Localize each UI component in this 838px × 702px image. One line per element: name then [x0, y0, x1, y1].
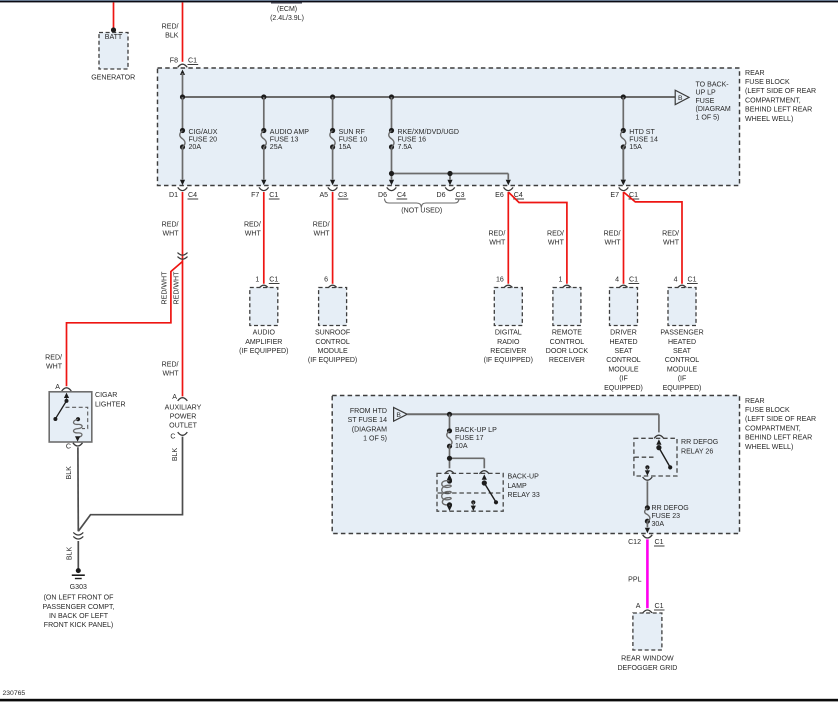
svg-text:(ON LEFT FRONT OF: (ON LEFT FRONT OF	[44, 595, 115, 602]
svg-text:BLK: BLK	[66, 466, 73, 480]
node: junction at D6/C4 drop	[389, 171, 394, 176]
svg-text:25A: 25A	[270, 144, 283, 151]
svg-text:RR DEFOG: RR DEFOG	[681, 439, 718, 446]
svg-text:LAMP: LAMP	[508, 483, 527, 490]
svg-text:COMPARTMENT,: COMPARTMENT,	[745, 425, 801, 432]
svg-text:(DIAGRAM: (DIAGRAM	[696, 106, 731, 113]
svg-text:C1: C1	[655, 603, 664, 610]
svg-text:E6: E6	[495, 192, 504, 199]
label: G303 ground location	[43, 584, 115, 629]
wire: RED/WHT from E7 to driver heated seat module	[604, 192, 624, 284]
relay box: BACK-UP LAMP RELAY 33	[437, 473, 503, 511]
svg-text:BACK-UP: BACK-UP	[508, 474, 540, 481]
back-up lamp relay switch	[482, 474, 498, 504]
wire: feed bus in fuse block 2	[407, 413, 659, 415]
node: junction at D6/C3 drop	[447, 171, 452, 176]
wire: RED/WHT branch from splice to cigar lighter	[45, 262, 182, 387]
svg-text:RR DEFOG: RR DEFOG	[652, 505, 689, 512]
wire: fuse 17 output to back-up lamp relay	[450, 446, 485, 468]
svg-text:PASSENGER COMPT,: PASSENGER COMPT,	[43, 604, 115, 611]
svg-text:WHT: WHT	[314, 231, 331, 238]
wire: fuse 23 output to C12	[645, 521, 650, 533]
svg-text:FUSE 17: FUSE 17	[455, 435, 484, 442]
svg-text:BATT: BATT	[105, 34, 123, 41]
svg-text:(IF EQUIPPED): (IF EQUIPPED)	[484, 357, 533, 364]
svg-text:FUSE 14: FUSE 14	[629, 137, 658, 144]
off-page arrow B: TO BACK-UP LP FUSE	[675, 90, 689, 104]
wire: fuse block entry (up arrow)	[180, 70, 185, 98]
splice: BLK ground junction	[73, 532, 83, 539]
wire: main bus bar in fuse block 1	[183, 96, 676, 98]
wire: RED/WHT from E6 to remote control door lock receiver	[508, 192, 567, 284]
svg-text:IN BACK OF LEFT: IN BACK OF LEFT	[49, 613, 109, 620]
fuse F20 CIG/AUX	[180, 97, 218, 185]
rear fuse block 2 (dashed enclosure)	[332, 396, 739, 534]
svg-text:C1: C1	[188, 57, 197, 64]
svg-text:F8: F8	[170, 57, 178, 64]
svg-text:WHT: WHT	[162, 231, 179, 238]
svg-text:16: 16	[496, 276, 504, 283]
svg-text:C1: C1	[629, 276, 638, 283]
fuse F10 SUN RF	[330, 97, 367, 185]
connector D6 / C3 at fuse block 1 bottom	[436, 187, 465, 199]
fuse F17 BACK-UP LP	[447, 414, 497, 450]
connector F7 / C1 at fuse block 1 bottom	[251, 187, 279, 199]
component box: sunroof control module	[319, 288, 347, 326]
svg-text:(IF EQUIPPED): (IF EQUIPPED)	[308, 357, 357, 364]
back-up lamp relay coil	[442, 474, 452, 511]
svg-text:RECEIVER: RECEIVER	[490, 348, 526, 355]
wire: BLK from splice to ground G303	[66, 541, 78, 569]
wire: bus to RR defog relay	[658, 414, 660, 432]
svg-text:MODULE: MODULE	[667, 366, 697, 373]
svg-text:WHT: WHT	[548, 240, 565, 247]
label: diagram number 230765	[3, 690, 26, 697]
svg-text:230765: 230765	[3, 690, 26, 697]
svg-text:CONTROL: CONTROL	[550, 339, 585, 346]
svg-text:PASSENGER: PASSENGER	[660, 330, 703, 337]
svg-text:7.5A: 7.5A	[398, 144, 413, 151]
connector E7 / C1 at fuse block 1 bottom	[610, 187, 639, 199]
svg-text:1: 1	[558, 276, 562, 283]
svg-text:CIG/AUX: CIG/AUX	[189, 129, 218, 136]
connector C at cigar lighter	[66, 443, 83, 451]
svg-text:LIGHTER: LIGHTER	[95, 402, 126, 409]
node: bus junction at SUN RF tap	[330, 94, 335, 99]
RR defog relay output pin	[645, 465, 650, 476]
svg-text:REAR: REAR	[745, 70, 765, 77]
off-page arrow B: from HTD ST fuse	[394, 408, 408, 422]
svg-text:CONTROL: CONTROL	[606, 357, 641, 364]
svg-text:FUSE 10: FUSE 10	[339, 137, 368, 144]
node: bus junction at HTD ST tap	[621, 94, 626, 99]
svg-text:RED/: RED/	[162, 362, 179, 369]
back-up lamp relay output pin	[471, 500, 476, 511]
svg-text:FUSE 23: FUSE 23	[652, 513, 681, 520]
svg-text:AMPLIFIER: AMPLIFIER	[245, 339, 282, 346]
svg-text:RKE/XM/DVD/UGD: RKE/XM/DVD/UGD	[398, 129, 459, 136]
svg-text:D6: D6	[436, 192, 445, 199]
connector F8 / C1 (rear fuse block input)	[170, 57, 198, 67]
svg-text:SUNROOF: SUNROOF	[315, 330, 351, 337]
svg-text:(2.4L/3.9L): (2.4L/3.9L)	[270, 15, 304, 22]
node: bus junction at AUDIO AMP tap	[261, 94, 266, 99]
connector A / C1 at defogger grid	[636, 603, 665, 613]
svg-text:A: A	[55, 384, 60, 391]
svg-text:C1: C1	[269, 276, 278, 283]
svg-text:UP LP: UP LP	[696, 90, 717, 97]
node: junction at relay coil feed	[447, 456, 452, 461]
svg-text:BEHIND LEFT REAR: BEHIND LEFT REAR	[745, 435, 812, 442]
svg-text:D1: D1	[169, 192, 178, 199]
connector C12 / C1	[628, 535, 664, 546]
svg-text:EQUIPPED): EQUIPPED)	[663, 385, 702, 392]
svg-text:C1: C1	[688, 276, 697, 283]
svg-text:DEFOGGER GRID: DEFOGGER GRID	[617, 665, 677, 672]
label: GENERATOR	[91, 75, 135, 82]
svg-text:FROM HTD: FROM HTD	[350, 408, 387, 415]
svg-text:TO BACK-: TO BACK-	[696, 82, 730, 89]
wire: PPL to rear window defogger grid	[628, 539, 647, 608]
svg-text:BACK-UP LP: BACK-UP LP	[455, 427, 497, 434]
svg-text:WHEEL WELL): WHEEL WELL)	[745, 116, 793, 123]
svg-text:C1: C1	[655, 539, 664, 546]
svg-text:RADIO: RADIO	[497, 339, 520, 346]
svg-text:AUDIO AMP: AUDIO AMP	[270, 129, 309, 136]
svg-text:CONTROL: CONTROL	[315, 339, 350, 346]
svg-text:ST FUSE 14: ST FUSE 14	[348, 417, 388, 424]
svg-text:FRONT KICK PANEL): FRONT KICK PANEL)	[44, 622, 113, 629]
connector pin 6 at sunroof control module	[324, 276, 337, 288]
connector A5 / C3 at fuse block 1 bottom	[319, 187, 348, 199]
connector D1 / C4 at fuse block 1 bottom	[169, 187, 198, 199]
svg-text:A5: A5	[319, 192, 328, 199]
svg-text:(IF: (IF	[678, 376, 687, 383]
label: driver heated seat control module	[604, 330, 643, 392]
svg-text:DOOR LOCK: DOOR LOCK	[546, 348, 589, 355]
svg-text:4: 4	[674, 276, 678, 283]
wire: RKE fuse output to not-used connectors and E6	[389, 147, 511, 185]
cigar lighter heating element (dashed socket)	[66, 407, 88, 441]
svg-text:RED/: RED/	[45, 355, 62, 362]
wire: RED/WHT from E6 to digital radio receiver	[488, 192, 508, 284]
svg-text:B: B	[396, 412, 401, 419]
svg-text:RED/WHT: RED/WHT	[162, 271, 169, 305]
ground G303	[72, 568, 85, 578]
svg-text:A: A	[636, 603, 641, 610]
label: CIGAR LIGHTER	[95, 392, 126, 408]
svg-text:15A: 15A	[339, 144, 352, 151]
svg-text:MODULE: MODULE	[608, 366, 638, 373]
svg-text:WHT: WHT	[245, 231, 262, 238]
node: junction at back-up lamp fuse tap	[447, 412, 452, 417]
relay box: RR DEFOG RELAY 26	[634, 438, 677, 476]
svg-text:15A: 15A	[629, 144, 642, 151]
svg-text:CIGAR: CIGAR	[95, 392, 117, 399]
bottom border bar	[0, 699, 838, 702]
svg-text:DIGITAL: DIGITAL	[495, 330, 522, 337]
svg-text:(DIAGRAM: (DIAGRAM	[352, 426, 387, 433]
svg-text:HEATED: HEATED	[609, 339, 637, 346]
svg-text:REMOTE: REMOTE	[552, 330, 582, 337]
cigar lighter box	[49, 392, 92, 442]
svg-text:OUTLET: OUTLET	[169, 423, 197, 430]
label: AUXILIARY POWER OUTLET	[165, 404, 202, 429]
svg-text:REAR WINDOW: REAR WINDOW	[621, 656, 674, 663]
svg-text:(LEFT SIDE OF REAR: (LEFT SIDE OF REAR	[745, 88, 816, 95]
svg-text:WHT: WHT	[604, 240, 621, 247]
svg-text:GENERATOR: GENERATOR	[91, 75, 135, 82]
connector A at auxiliary power outlet	[172, 394, 187, 401]
svg-text:30A: 30A	[652, 521, 665, 528]
svg-text:4: 4	[615, 276, 619, 283]
connector pin 1 at audio amplifier	[255, 276, 279, 288]
svg-text:E7: E7	[610, 192, 619, 199]
svg-text:20A: 20A	[189, 144, 202, 151]
svg-text:RED/: RED/	[244, 222, 261, 229]
svg-text:C3: C3	[338, 192, 347, 199]
fuse F14 HTD ST	[621, 97, 658, 185]
wire: RED/WHT from F7 to audio amplifier	[244, 192, 264, 284]
label: ECM module (partially cut off at top)	[270, 2, 304, 21]
connector A at cigar lighter	[55, 384, 71, 391]
fuse F16 RKE	[389, 97, 459, 151]
svg-text:6: 6	[324, 276, 328, 283]
svg-text:SEAT: SEAT	[673, 348, 692, 355]
label: BACK-UP LAMP RELAY 33	[508, 474, 540, 500]
label: RR DEFOG RELAY 26	[681, 439, 718, 455]
svg-text:C3: C3	[456, 192, 465, 199]
svg-text:FUSE BLOCK: FUSE BLOCK	[745, 79, 790, 86]
svg-text:HEATED: HEATED	[668, 339, 696, 346]
back-up lamp relay divider	[438, 492, 503, 494]
component box: remote control door lock receiver	[553, 288, 581, 326]
svg-text:RED/: RED/	[604, 231, 621, 238]
wire: battery feed to generator (red)	[113, 2, 115, 29]
svg-text:REAR: REAR	[745, 398, 765, 405]
svg-text:RED/: RED/	[488, 231, 505, 238]
svg-text:FUSE 13: FUSE 13	[270, 137, 299, 144]
svg-text:RELAY 26: RELAY 26	[681, 448, 713, 455]
label: sunroof control module	[308, 330, 357, 365]
label: audio amplifier	[239, 330, 288, 355]
wire: RED/BLK feed from ECM splice to fuse block	[162, 2, 183, 61]
svg-text:WHT: WHT	[489, 240, 506, 247]
RR defog relay divider	[634, 456, 656, 458]
svg-text:(IF: (IF	[619, 376, 628, 383]
svg-text:RED/: RED/	[547, 231, 564, 238]
wire: relay output to RR defog fuse	[646, 481, 648, 508]
brace: not-used connectors	[385, 199, 460, 215]
label: rear fuse block 1 location	[745, 70, 816, 123]
connector pin 4 at passenger heated seat control module	[674, 276, 698, 288]
svg-text:EQUIPPED): EQUIPPED)	[604, 385, 643, 392]
wire: BLK from auxiliary outlet to splice	[78, 437, 182, 532]
svg-text:G303: G303	[70, 584, 87, 591]
svg-text:F7: F7	[251, 192, 259, 199]
svg-text:WHEEL WELL): WHEEL WELL)	[745, 444, 793, 451]
label: TO BACK-UP LP FUSE (DIAGRAM 1 OF 5)	[696, 82, 731, 122]
label: REAR WINDOW DEFOGGER GRID	[617, 656, 677, 672]
wire: HTD ST fuse output to E7	[621, 147, 626, 185]
svg-text:HTD ST: HTD ST	[629, 129, 655, 136]
label: rear fuse block 2 location	[745, 398, 816, 451]
generator connector box (BATT)	[99, 33, 128, 70]
connector below RR defog relay	[643, 477, 653, 480]
svg-text:C4: C4	[397, 192, 406, 199]
svg-text:C4: C4	[188, 192, 197, 199]
svg-text:FUSE 20: FUSE 20	[189, 137, 218, 144]
wire: RED/WHT from A5 to sunroof control module	[313, 192, 333, 284]
svg-text:(IF EQUIPPED): (IF EQUIPPED)	[239, 348, 288, 355]
connector pin 16 at digital radio receiver	[496, 276, 513, 288]
connector pins into back-up lamp relay	[445, 471, 489, 474]
component box: audio amplifier	[250, 288, 278, 326]
svg-text:WHT: WHT	[162, 370, 179, 377]
svg-text:BEHIND LEFT REAR: BEHIND LEFT REAR	[745, 107, 812, 114]
svg-text:RECEIVER: RECEIVER	[549, 357, 585, 364]
svg-text:B: B	[678, 95, 683, 102]
RR defog relay switch	[656, 439, 672, 469]
svg-text:C: C	[66, 444, 71, 451]
svg-text:SUN RF: SUN RF	[339, 129, 366, 136]
label: digital radio receiver	[484, 330, 533, 365]
node: bus junction at CIG/AUX tap	[180, 94, 185, 99]
connector pin 1 at remote control door lock receiver	[558, 276, 571, 288]
label: passenger heated seat control module	[660, 330, 703, 392]
svg-text:WHT: WHT	[46, 363, 63, 370]
svg-text:WHT: WHT	[663, 240, 680, 247]
svg-text:FUSE 16: FUSE 16	[398, 137, 427, 144]
splice: RED/WHT in-line connector	[178, 253, 188, 260]
connector pin 4 at driver heated seat control module	[615, 276, 639, 288]
connector C at auxiliary power outlet	[170, 432, 187, 440]
svg-text:BLK: BLK	[165, 32, 179, 39]
cigar lighter switch contact	[53, 393, 69, 421]
svg-text:CONTROL: CONTROL	[665, 357, 700, 364]
svg-text:BLK: BLK	[172, 448, 179, 462]
svg-text:DRIVER: DRIVER	[610, 330, 637, 337]
svg-text:(LEFT SIDE OF REAR: (LEFT SIDE OF REAR	[745, 416, 816, 423]
label: RED/WHT to auxiliary power outlet	[162, 362, 180, 378]
svg-text:1 OF 5): 1 OF 5)	[696, 114, 720, 121]
svg-text:C12: C12	[628, 539, 641, 546]
svg-text:1: 1	[255, 276, 259, 283]
svg-text:AUXILIARY: AUXILIARY	[165, 404, 202, 411]
wire: RED/WHT from E7 to passenger heated seat module	[624, 192, 683, 284]
svg-text:FUSE: FUSE	[696, 98, 715, 105]
component box: digital radio receiver	[494, 288, 522, 326]
top border bar	[0, 0, 838, 2]
svg-text:(NOT USED): (NOT USED)	[401, 208, 442, 215]
wire: RED/WHT from D1 to splice and auxiliary outlet	[162, 192, 183, 396]
svg-text:SEAT: SEAT	[615, 348, 634, 355]
svg-text:PPL: PPL	[628, 577, 641, 584]
fuse F13 AUDIO AMP	[261, 97, 309, 185]
svg-text:COMPARTMENT,: COMPARTMENT,	[745, 97, 801, 104]
svg-text:RED/WHT: RED/WHT	[173, 271, 180, 305]
svg-text:RED/: RED/	[162, 222, 179, 229]
node: generator BATT terminal	[111, 27, 116, 32]
component box: passenger heated seat control module	[668, 288, 696, 326]
svg-text:BLK: BLK	[66, 547, 73, 561]
label: FROM HTD ST FUSE 14	[348, 408, 388, 443]
svg-text:RED/: RED/	[162, 23, 179, 30]
label: remote control door lock receiver	[546, 330, 589, 365]
connector E6 / C4 at fuse block 1 bottom	[495, 187, 524, 199]
svg-text:10A: 10A	[455, 443, 468, 450]
rear fuse block 1 (dashed enclosure)	[158, 68, 740, 186]
component box: driver heated seat control module	[610, 288, 638, 326]
connector pin into RR defog relay	[654, 435, 664, 438]
svg-text:FUSE BLOCK: FUSE BLOCK	[745, 407, 790, 414]
svg-text:D6: D6	[378, 192, 387, 199]
fuse F23 RR DEFOG	[645, 505, 689, 528]
svg-text:RED/: RED/	[662, 231, 679, 238]
svg-text:RELAY 33: RELAY 33	[508, 492, 540, 499]
component box: rear window defogger grid	[633, 613, 662, 650]
svg-text:C1: C1	[269, 192, 278, 199]
svg-text:1 OF 5): 1 OF 5)	[363, 436, 387, 443]
connector D6 / C4 at fuse block 1 bottom	[378, 187, 407, 199]
svg-text:C: C	[170, 433, 175, 440]
svg-text:RED/: RED/	[313, 222, 330, 229]
svg-text:POWER: POWER	[170, 414, 197, 421]
svg-text:A: A	[172, 394, 177, 401]
svg-text:(ECM): (ECM)	[277, 6, 297, 13]
wire: BLK from cigar lighter to splice	[66, 447, 78, 531]
node: bus junction at RKE tap	[389, 94, 394, 99]
svg-text:AUDIO: AUDIO	[253, 330, 276, 337]
svg-text:MODULE: MODULE	[318, 348, 348, 355]
